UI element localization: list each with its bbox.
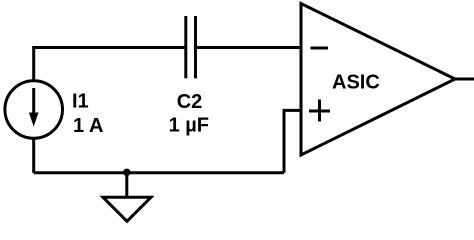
bottom rail wire	[34, 171, 284, 174]
op-amp plus input marking	[309, 100, 330, 122]
wire: capacitor right plate to op-amp inverting input	[196, 46, 302, 49]
svg-text:ASIC: ASIC	[332, 72, 380, 94]
capacitor C2	[186, 16, 196, 78]
junction dot	[123, 169, 130, 176]
op-amp minus input marking	[311, 47, 329, 50]
current source I1	[5, 81, 63, 139]
output wire from op-amp	[455, 78, 474, 81]
wire: current source bottom to bottom rail	[32, 139, 35, 173]
ground	[103, 173, 151, 222]
svg-text:I1: I1	[72, 91, 89, 113]
wire: current source top to top rail corner and to capacitor left plate	[34, 48, 186, 82]
svg-text:C2: C2	[177, 91, 203, 113]
svg-text:1 A: 1 A	[73, 115, 103, 137]
svg-text:1 µF: 1 µF	[169, 115, 209, 137]
op-amp U1 (ASIC)	[301, 4, 455, 156]
wire: bottom rail up to op-amp non-inverting input	[284, 110, 301, 172]
